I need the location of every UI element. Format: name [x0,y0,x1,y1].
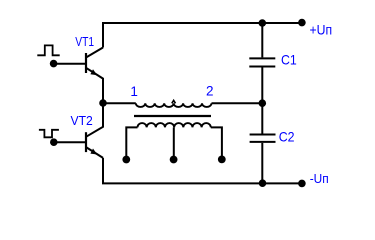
node junction primary right / C1 C2 [259,99,267,107]
transformer T1 primary winding 1-2 [136,103,212,107]
wire primary right [212,102,263,104]
C1 plates [249,58,275,66]
transformer primary seam spike [172,100,176,103]
terminal secondary right [218,156,226,164]
VT1 emitter [86,68,103,103]
svg-text:-Uп: -Uп [310,171,329,186]
VT1 collector [86,48,103,58]
VT2 base bar [85,132,87,152]
VT2 emitter [86,147,103,158]
terminal secondary center [170,156,178,164]
transformer T1 core [134,115,211,117]
wire secondary left lead [126,127,137,159]
VT2 collector [86,103,103,137]
C2 plates [250,135,276,142]
svg-text:C2: C2 [279,128,295,144]
svg-text:1: 1 [130,84,138,99]
C1 top wire [261,23,263,57]
terminal secondary left [122,156,130,164]
wire secondary right lead [211,127,222,159]
pulse symbol input 2 (negative pulse) [39,130,59,138]
C1 bottom wire [261,68,263,104]
terminal -U [298,180,306,188]
wire primary left [103,102,136,104]
wire bottom rail -U [103,158,302,184]
transistor Q VT2 [54,103,103,158]
capacitor C2 [250,103,276,183]
svg-text:+Uп: +Uп [310,21,333,37]
wire secondary center tap [173,127,175,159]
VT2 base wire [54,141,85,143]
VT2 emitter arrow [90,149,97,155]
VT1 emitter arrow [90,69,97,75]
transformer T1 secondary winding [138,123,211,127]
terminal input 2 [50,138,58,146]
svg-text:2: 2 [206,83,214,98]
transistor Q VT1 [54,48,103,104]
svg-text:VT2: VT2 [71,113,93,128]
terminal +U [298,19,306,27]
VT1 base wire [54,63,86,65]
terminal input 1 [50,60,58,68]
pulse symbol input 1 (positive pulse) [37,45,59,55]
node junction VT1/VT2/primary [99,99,107,107]
wire top rail +U [103,23,302,48]
svg-text:VT1: VT1 [75,34,94,49]
C2 top wire [261,103,263,133]
node junction top rail C1 [259,19,267,27]
capacitor C1 [249,23,275,103]
node junction bottom rail C2 [259,179,267,187]
svg-text:C1: C1 [281,51,297,67]
VT1 base bar [85,53,87,73]
C2 bottom wire [261,143,263,184]
